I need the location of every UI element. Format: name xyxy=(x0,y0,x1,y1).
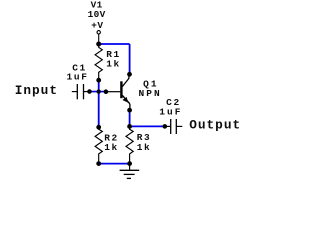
svg-text:1k: 1k xyxy=(104,142,119,153)
wire collector drop (vertical) xyxy=(129,44,131,72)
ground xyxy=(120,164,140,179)
wire emitter drop (vertical) xyxy=(129,110,131,126)
junction dot emitter node xyxy=(127,124,132,129)
svg-text:10V: 10V xyxy=(88,9,106,20)
power pin lead xyxy=(98,34,100,44)
svg-text:1k: 1k xyxy=(137,142,152,153)
svg-text:Output: Output xyxy=(189,118,241,133)
junction dot base node (blue) xyxy=(97,89,101,93)
wire bottom R2 to ground node (horizontal) xyxy=(99,163,130,165)
svg-text:1uF: 1uF xyxy=(67,72,89,83)
svg-text:NPN: NPN xyxy=(139,88,162,99)
wire supply to collector (horizontal) xyxy=(99,43,130,45)
pin dot base terminal xyxy=(104,89,109,94)
pin dot collector xyxy=(127,72,132,77)
pin dot R2 top xyxy=(96,125,101,130)
pin dot C1 right xyxy=(87,89,92,94)
svg-text:1uF: 1uF xyxy=(159,106,182,117)
junction dot supply node xyxy=(96,42,101,47)
svg-text:1k: 1k xyxy=(106,59,121,70)
pin dot R1 bottom xyxy=(96,78,101,83)
pin dot R2 bottom xyxy=(96,161,101,166)
resistor R3 xyxy=(126,126,133,163)
pin dot emitter xyxy=(127,108,132,113)
pin dot C2 left xyxy=(163,124,168,129)
resistor R1 xyxy=(95,44,102,80)
wire C1 to base pin (horizontal) xyxy=(90,91,106,93)
capacitor C1 xyxy=(72,84,90,99)
power terminal +V circle xyxy=(97,31,100,34)
resistor R2 xyxy=(95,127,102,163)
capacitor C2 xyxy=(165,119,183,134)
junction dot ground node xyxy=(127,161,132,166)
svg-text:Input: Input xyxy=(15,83,58,98)
svg-text:+V: +V xyxy=(91,20,103,31)
wire emitter node to C2 (horizontal) xyxy=(130,125,165,127)
wire R1 bottom to base node to R2 top (vertical) xyxy=(98,80,100,125)
transistor Q1 xyxy=(106,76,130,108)
